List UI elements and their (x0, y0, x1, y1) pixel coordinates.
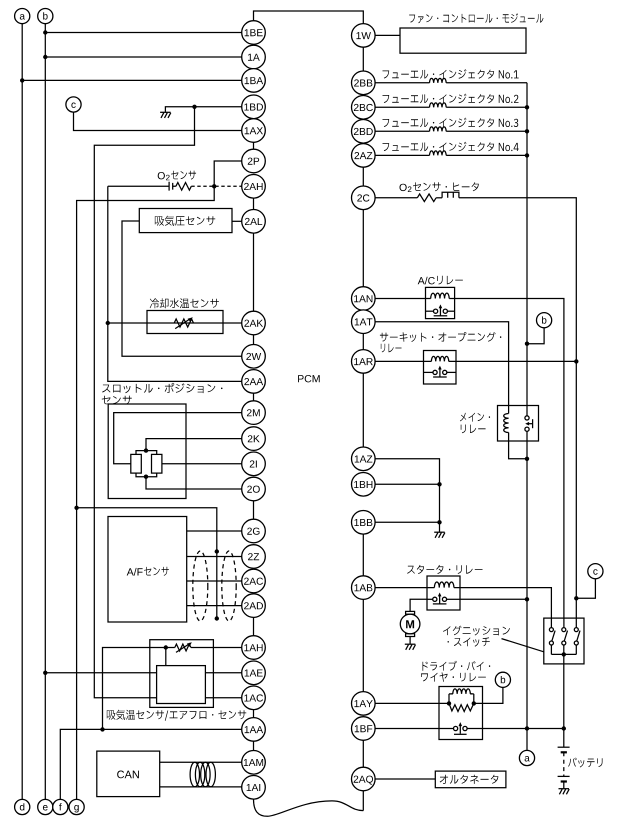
wire pin chain (253, 741, 255, 750)
wire pin chain (253, 335, 255, 345)
wire 2AQ (375, 778, 435, 780)
twisted pair symbol (190, 762, 215, 787)
wire injector 1 left (375, 82, 429, 84)
label DBW relay line1 (423, 661, 491, 671)
label fan control module (409, 13, 543, 23)
wire injector 4 left (375, 154, 429, 156)
pin 2BB (352, 71, 376, 95)
label alternator (440, 775, 499, 784)
junction tps top (144, 448, 148, 452)
DBW resistor branch (449, 703, 474, 711)
motor M caps (406, 611, 415, 614)
throttle position sensor box (108, 404, 186, 499)
pin 2K (242, 427, 266, 451)
wire 2M (114, 413, 242, 464)
pin 1BB (352, 511, 376, 535)
wire pin chain right (362, 740, 364, 767)
pin 1AZ (352, 447, 376, 471)
CAN box (97, 751, 160, 797)
label O2 heater O (400, 184, 407, 191)
junction O2-2P rail (212, 184, 216, 188)
AC relay box (426, 287, 455, 318)
wire pin chain (253, 393, 255, 401)
heater element (442, 192, 459, 198)
wire 1AH (103, 648, 242, 730)
label throttle position sensor line2 (102, 396, 132, 405)
wire b to DBW (474, 687, 503, 703)
pin 2AZ (352, 144, 376, 168)
ground battery (559, 789, 570, 795)
label AC relay latin (418, 277, 435, 285)
tps top connector (136, 451, 157, 455)
ignition switch pole 2 (562, 628, 566, 632)
label circuit opening relay line1 (380, 332, 501, 342)
label fuel injector No.1 (382, 69, 518, 79)
motor M label (406, 620, 414, 628)
pin 1AN (352, 287, 376, 311)
wire 1AH stub to inner box (165, 648, 167, 666)
junction 1BH (437, 482, 441, 486)
pin 2AC (242, 569, 266, 593)
switch circuit opening relay (424, 371, 433, 373)
inductor injector 3 (430, 127, 447, 131)
wire starter switch to M (410, 599, 427, 611)
wire main relay coil top (508, 406, 510, 414)
pin 1BD (242, 95, 266, 119)
label CAN (117, 771, 139, 779)
wire injector 3 left (375, 130, 429, 132)
junction 1BF bus (525, 726, 529, 730)
intake pressure sensor box (139, 209, 232, 233)
wire 1AB (375, 588, 551, 628)
pin 1W (352, 24, 376, 48)
pin 2I (242, 452, 266, 476)
wire 1BA (22, 79, 242, 81)
wire 2O (146, 477, 242, 489)
motor M circle (400, 614, 420, 634)
wire bus to a (526, 729, 528, 751)
label A/F sensor katakana (144, 567, 169, 576)
wire 2G (187, 530, 242, 532)
junction 1BD branch (192, 105, 196, 109)
battery plate3 long (558, 775, 570, 777)
battery plate4 short (561, 780, 567, 782)
wire pin chain (253, 617, 255, 635)
pin 2O (242, 477, 266, 501)
main relay box (498, 406, 539, 442)
pin 2BD (352, 120, 376, 144)
DBW coil branch (449, 694, 474, 704)
wire 2AD (187, 605, 242, 607)
wire 1BE (45, 32, 241, 34)
terminal c right (588, 564, 603, 579)
label ignition switch line1 (443, 626, 510, 636)
wire intake pressure to 2W (122, 221, 242, 356)
junction e-1AE (43, 671, 47, 675)
junction c-2C rail (574, 596, 578, 600)
pin 2BC (352, 96, 376, 120)
wire pin chain right (362, 791, 364, 811)
wire 1BF (375, 728, 564, 730)
starter relay box (427, 576, 460, 610)
pin 2AD (242, 594, 266, 618)
label A/F sensor latin (127, 568, 143, 576)
label coolant temp sensor (150, 298, 219, 308)
wire injector 1 right (446, 82, 527, 84)
switch main relay arrow (532, 419, 534, 428)
pin 2W (242, 345, 266, 369)
junction tps bottom (144, 475, 148, 479)
label airflow sensor (107, 710, 246, 721)
coil AC relay (431, 293, 449, 298)
wire O2 rail to 2AA (108, 186, 242, 381)
PCM label (298, 375, 320, 382)
junction main relay return (525, 457, 529, 461)
pin 1BE (242, 21, 266, 45)
wire M ground stub (409, 637, 411, 644)
pin 2G (242, 519, 266, 543)
wire pin chain (253, 710, 255, 718)
wire b to bus (527, 328, 544, 344)
pin 2AA (242, 370, 266, 394)
A/F sensor box (108, 517, 187, 623)
wire 1AE right (205, 672, 241, 674)
junction 1AA-1AH rail (100, 727, 104, 731)
inductor injector 1 (430, 78, 447, 82)
wire 1AE left (45, 672, 156, 674)
wire 2C mid (436, 197, 442, 199)
inductor injector 4 (430, 151, 447, 155)
pin 1AB (352, 576, 376, 600)
wire 1AI (160, 786, 242, 788)
wire shield drain (77, 508, 217, 619)
junction b-1BE (43, 30, 47, 34)
coolant temp sensor box (147, 311, 223, 334)
wire c to 2C rail (576, 579, 595, 599)
label O2 sensor katakana (171, 171, 196, 180)
label O2 sensor O (158, 172, 165, 179)
wire 2AC (187, 580, 242, 582)
ignition switch callout (502, 639, 544, 652)
resistor TPS right (152, 454, 162, 473)
junction ignition common (562, 652, 566, 656)
terminal b lower (495, 672, 510, 687)
pin 2M (242, 401, 266, 425)
terminal b (38, 9, 53, 24)
switch DBW arrow (459, 726, 461, 734)
wire 2C right (459, 198, 576, 628)
label fuel injector No.2 (382, 94, 518, 104)
wire pin chain (253, 142, 255, 149)
terminal b mid (537, 313, 552, 328)
junction g-shield (74, 506, 78, 510)
pin 1AR (352, 350, 376, 374)
pin 1AH (242, 636, 266, 660)
tps bottom connector (136, 473, 157, 477)
junction 1AH stub (164, 645, 168, 649)
PCM outline bottom wave (254, 799, 364, 816)
inductor injector 2 (430, 103, 447, 107)
ground at 1BD (160, 112, 171, 118)
wire 1BD (165, 107, 241, 112)
label O2 heater 2 (408, 186, 412, 192)
wire pin chain right (362, 210, 364, 287)
pin 1AI (242, 776, 266, 800)
terminal f (53, 799, 68, 814)
terminal a lower (519, 750, 534, 765)
wire 2K (146, 439, 242, 451)
battery dashed link (563, 752, 565, 776)
airflow inner box (157, 666, 206, 704)
switch main relay contacts (525, 416, 529, 420)
wire pin chain right (362, 534, 364, 576)
pin 1BA (242, 69, 266, 93)
ignition switch pole 3 (574, 628, 578, 632)
coil circuit opening relay (431, 356, 448, 361)
wire 2C left (375, 197, 417, 199)
pin 2P (242, 149, 266, 173)
wire 1AZ (375, 459, 439, 523)
ground 1BB (434, 532, 445, 538)
coil starter relay (434, 582, 454, 588)
ignition switch pole 1 (549, 628, 553, 632)
terminal d (15, 799, 30, 814)
O2 sensor cell plates (169, 182, 173, 191)
label AC relay katakana (437, 276, 463, 285)
junction 1AR-2C rail (574, 359, 578, 363)
wire 1AR (375, 360, 576, 362)
wire pin chain (253, 198, 255, 210)
junction 1BB (437, 520, 441, 524)
junction shield bottom (215, 616, 219, 620)
wire 1AA (60, 729, 241, 799)
fan control module box (400, 28, 526, 53)
shield ellipse left (193, 551, 208, 621)
junction shield top (215, 549, 219, 553)
wire 2AL (232, 220, 242, 222)
battery plate2 short (561, 751, 567, 753)
wire injector bus (526, 83, 528, 416)
pin 1AT (352, 310, 376, 334)
resistor O2 heater (417, 194, 436, 202)
wire pin chain (253, 501, 255, 519)
wire 2Z (187, 556, 242, 558)
wire pin chain right (362, 167, 364, 186)
junction DBW right node (472, 701, 476, 705)
junction bus 2AZ (525, 153, 529, 157)
label main relay line2 (461, 425, 486, 434)
junction bus 2BD (525, 129, 529, 133)
junction 1BF battery (562, 726, 566, 730)
PCM outline top (254, 11, 364, 24)
label battery (568, 758, 602, 768)
label DBW relay line2 (421, 672, 486, 681)
wire rail b-e (44, 24, 46, 800)
wire pin chain right (362, 47, 364, 71)
pin 1A (242, 45, 266, 69)
label O2 heater katakana (413, 182, 479, 191)
wire main relay coil bottom (509, 433, 527, 459)
ignition switch common bar (551, 653, 576, 655)
ground motor (405, 644, 416, 650)
pin 1AM (242, 751, 266, 775)
airflow outer box (150, 640, 214, 708)
pin 2AQ (352, 767, 376, 791)
wire rail a-d (21, 24, 23, 800)
terminal g (69, 799, 84, 814)
wire pin chain right (362, 334, 364, 350)
pin 2AH (242, 175, 266, 199)
ignition switch box (544, 618, 584, 664)
pin 2AK (242, 311, 266, 335)
label ignition switch line2 (448, 637, 490, 646)
pin 2Z (242, 545, 266, 569)
wire 1BB ground stub (439, 522, 441, 532)
wire pin chain (253, 233, 255, 311)
label fuel injector No.3 (382, 118, 518, 128)
wire pin chain right (362, 599, 364, 691)
wire ignition to battery (563, 654, 565, 747)
wire dashed to 2AH (191, 185, 241, 187)
terminal e (38, 799, 53, 814)
wire starter switch to bus (460, 598, 527, 600)
wire injector 2 left (375, 106, 429, 108)
label intake pressure sensor (155, 216, 215, 226)
switch DBW contacts (454, 726, 458, 730)
label throttle position sensor line1 (102, 383, 222, 393)
junction bus starter (525, 597, 529, 601)
junction a-1BA (20, 78, 24, 82)
pin 1AX (242, 119, 266, 143)
wire bus through main relay (526, 431, 528, 728)
battery ground stub (563, 782, 565, 789)
wire 1AT (375, 322, 509, 406)
label O2 sensor 2 (166, 175, 170, 181)
pin 1AA (242, 718, 266, 742)
wire 1A (45, 56, 241, 58)
shield ellipse right (222, 551, 236, 621)
DBW relay box (439, 687, 483, 740)
pin 1AE (242, 661, 266, 685)
wire 1W (375, 34, 400, 36)
label fuel injector No.4 (382, 142, 518, 152)
junction O2rail-2AK (106, 321, 110, 325)
pin 1BF (352, 717, 376, 741)
wire 2P (77, 161, 242, 799)
wire 1BH (375, 483, 439, 485)
terminal c (66, 97, 81, 112)
resistor O2 sensor (176, 183, 191, 191)
thermistor coolant (174, 319, 193, 327)
wire 1AY (375, 702, 449, 704)
label main relay line1 (460, 413, 490, 422)
junction bus 2BC (525, 105, 529, 109)
wire injector 3 right (446, 130, 527, 132)
wire 2I (162, 463, 242, 465)
thermistor airflow (175, 644, 191, 651)
pin 2AL (242, 210, 266, 234)
wire 1AN (375, 299, 564, 628)
battery plate1 long (558, 746, 570, 748)
terminal a (15, 9, 30, 24)
pin 1AC (242, 686, 266, 710)
wire 2AK (108, 322, 242, 324)
wire injector 2 right (446, 106, 527, 108)
switch starter relay (427, 598, 433, 600)
label circuit opening relay line2 (381, 344, 402, 353)
wire c to 1AX (74, 112, 242, 130)
wire pin chain right (362, 373, 364, 447)
switch AC relay (426, 310, 434, 312)
pin 2C (352, 186, 376, 210)
pin 1AY (352, 692, 376, 716)
coil main relay (504, 414, 509, 433)
circuit opening relay box (424, 351, 457, 385)
label starter relay (407, 565, 482, 574)
resistor TPS left (131, 454, 142, 473)
wire O2 sensor left (108, 185, 176, 187)
wire 1AM (160, 761, 242, 763)
junction b-1A (43, 55, 47, 59)
pin 1BH (352, 473, 376, 497)
alternator box (435, 771, 506, 788)
wire 1BB (375, 521, 439, 523)
junction DBW left node (447, 701, 451, 705)
wire 1BD to 1AC rail (94, 107, 194, 698)
wire injector 4 right (446, 154, 527, 156)
junction bus b (525, 342, 529, 346)
wire 1AC (205, 697, 241, 699)
